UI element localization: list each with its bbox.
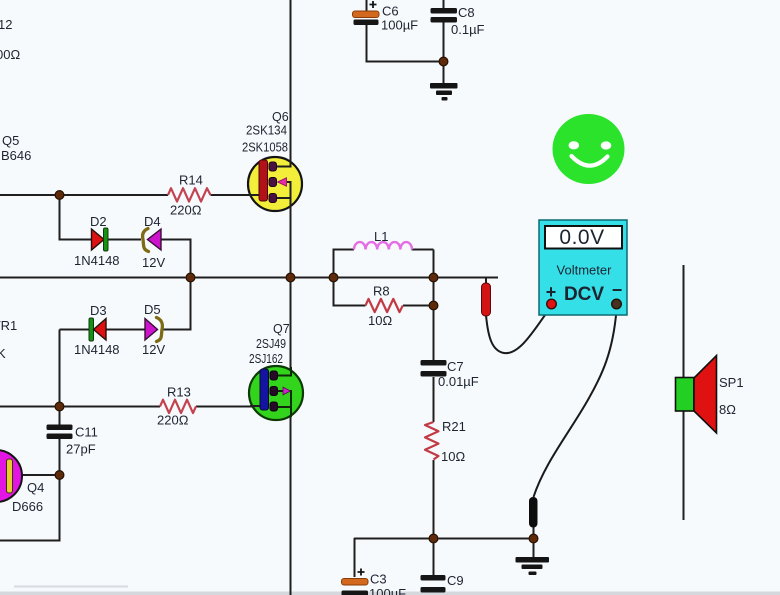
resistor R8 bbox=[366, 284, 403, 329]
svg-text:C3: C3 bbox=[370, 572, 387, 587]
wire bottom horizontal E bbox=[354, 538, 533, 540]
wire red probe stub bbox=[485, 277, 487, 284]
wire C6 bottom to C8 node bbox=[367, 25, 444, 62]
wire node B right vertical to C7 bbox=[433, 277, 435, 360]
wire Q4 collector to node bbox=[22, 474, 60, 476]
transistor Q4 bbox=[0, 450, 44, 514]
capacitor C8 bbox=[431, 5, 485, 37]
inductor L1 bbox=[354, 229, 412, 250]
svg-text:220Ω: 220Ω bbox=[157, 413, 189, 428]
svg-text:SP1: SP1 bbox=[719, 375, 744, 390]
svg-text:1N4148: 1N4148 bbox=[74, 342, 120, 357]
svg-text:10Ω: 10Ω bbox=[368, 313, 392, 328]
resistor R13 bbox=[157, 385, 196, 428]
svg-text:0.1µF: 0.1µF bbox=[451, 22, 485, 37]
svg-text:C9: C9 bbox=[447, 573, 464, 588]
svg-text:B646: B646 bbox=[1, 148, 31, 163]
svg-text:1N4148: 1N4148 bbox=[74, 253, 120, 268]
wire gate row A left bbox=[0, 194, 168, 196]
capacitor C11 bbox=[47, 425, 98, 457]
svg-text:C11: C11 bbox=[75, 425, 98, 440]
wire gate row C right to Q7 bbox=[196, 406, 262, 408]
svg-text:12V: 12V bbox=[142, 255, 165, 270]
svg-text:R14: R14 bbox=[179, 173, 203, 188]
node L1 left junction bbox=[329, 273, 338, 282]
node A junction bbox=[55, 191, 64, 200]
svg-text:2SK134: 2SK134 bbox=[246, 124, 287, 138]
svg-text:VR1: VR1 bbox=[0, 318, 17, 333]
wire black probe to ground bbox=[533, 527, 535, 557]
wire gate row C left bbox=[0, 406, 160, 408]
svg-text:100µF: 100µF bbox=[369, 586, 406, 595]
svg-text:L1: L1 bbox=[374, 229, 388, 244]
svg-text:D3: D3 bbox=[90, 303, 107, 318]
label Q5 partial bbox=[1, 133, 31, 163]
svg-text:Q6: Q6 bbox=[272, 110, 289, 124]
wire C11 bottom lead bbox=[59, 439, 61, 475]
diode D2 bbox=[74, 214, 120, 268]
wire gate row A right to Q6 bbox=[211, 194, 263, 196]
speaker SP1 bbox=[676, 356, 744, 434]
transistor Q6 bbox=[242, 110, 302, 211]
svg-text:Q7: Q7 bbox=[273, 322, 290, 336]
svg-text:12V: 12V bbox=[142, 342, 165, 357]
diode D3 bbox=[74, 303, 120, 357]
wire C9 lead bbox=[433, 538, 435, 575]
svg-text:0.01µF: 0.01µF bbox=[438, 374, 479, 389]
wire C6 top lead bbox=[366, 0, 368, 11]
svg-text:12: 12 bbox=[0, 17, 12, 32]
svg-text:D5: D5 bbox=[144, 302, 161, 317]
svg-text:10Ω: 10Ω bbox=[441, 449, 465, 464]
svg-text:Q5: Q5 bbox=[2, 133, 19, 148]
wire main horizontal B bbox=[0, 277, 498, 279]
ground top bbox=[430, 83, 458, 101]
wire speaker line bbox=[683, 265, 685, 520]
capacitor C7 bbox=[421, 359, 479, 389]
zener diode D4 bbox=[142, 214, 165, 270]
svg-text:2SJ49: 2SJ49 bbox=[256, 337, 286, 351]
wire C8 bottom to ground bbox=[443, 23, 445, 84]
wire D3 left drop bbox=[60, 330, 90, 407]
smiley status indicator bbox=[553, 114, 625, 184]
wire C8 top lead bbox=[443, 0, 445, 8]
wire C11 top lead bbox=[59, 406, 61, 425]
svg-text:100µF: 100µF bbox=[381, 18, 418, 33]
wire L1 branch bbox=[334, 250, 434, 278]
svg-text:Q4: Q4 bbox=[27, 480, 44, 495]
wire voltmeter minus to black probe bbox=[534, 310, 617, 497]
wire D3 to D5 bbox=[106, 329, 145, 331]
transistor Q7 bbox=[249, 322, 303, 420]
resistor R21 bbox=[425, 419, 466, 464]
node L1 right junction bbox=[429, 273, 438, 282]
wire C3 lead bbox=[354, 538, 356, 577]
wire R8 branch bbox=[334, 277, 434, 306]
capacitor C9 bbox=[421, 573, 464, 593]
wire main vertical drain line bbox=[290, 0, 292, 595]
svg-text:K: K bbox=[0, 346, 6, 361]
wire branch D2-D4 left drop bbox=[60, 195, 93, 240]
wire C7 to R21 bbox=[433, 377, 435, 422]
resistor R14 bbox=[168, 173, 211, 218]
svg-text:C6: C6 bbox=[382, 4, 399, 19]
svg-text:2SJ162: 2SJ162 bbox=[249, 352, 283, 366]
svg-text:R13: R13 bbox=[167, 385, 191, 400]
ground bottom bbox=[516, 557, 550, 575]
svg-text:R8: R8 bbox=[373, 284, 390, 299]
svg-text:DCV: DCV bbox=[564, 284, 604, 305]
capacitor C3 bbox=[342, 569, 407, 595]
svg-text:D4: D4 bbox=[144, 214, 161, 229]
node probe junction bbox=[529, 534, 538, 543]
svg-text:C8: C8 bbox=[458, 5, 475, 20]
node Q4 junction bbox=[55, 471, 64, 480]
svg-text:−: − bbox=[612, 280, 623, 300]
svg-text:D2: D2 bbox=[90, 214, 107, 229]
node C6-C8 junction bbox=[439, 57, 448, 66]
node gate2 junction bbox=[55, 402, 64, 411]
wire red probe to voltmeter plus bbox=[486, 308, 550, 353]
wire D4 right drop to node bbox=[161, 240, 191, 278]
red probe bbox=[482, 283, 491, 316]
svg-text:00Ω: 00Ω bbox=[0, 47, 20, 62]
node drain junction bbox=[286, 273, 295, 282]
svg-text:0.0V: 0.0V bbox=[559, 226, 604, 249]
wire D2 to D4 bbox=[108, 239, 141, 241]
wire faint bottom-left segment bbox=[14, 586, 128, 588]
node R8 right junction bbox=[429, 301, 438, 310]
node bias junction bbox=[186, 273, 195, 282]
svg-text:2SK1058: 2SK1058 bbox=[242, 141, 288, 155]
svg-text:C7: C7 bbox=[447, 359, 464, 374]
svg-text:D666: D666 bbox=[12, 499, 43, 514]
wire node down to D3-D5 row bbox=[162, 277, 191, 330]
capacitor C6 bbox=[353, 1, 419, 33]
black probe bbox=[529, 497, 538, 528]
node bottom junction bbox=[429, 534, 438, 543]
voltmeter M1 bbox=[539, 220, 627, 315]
svg-text:220Ω: 220Ω bbox=[170, 203, 202, 218]
svg-text:Voltmeter: Voltmeter bbox=[557, 263, 613, 278]
svg-text:27pF: 27pF bbox=[66, 442, 96, 457]
svg-text:R21: R21 bbox=[442, 419, 466, 434]
wire node down-left loop bbox=[0, 475, 60, 541]
zener diode D5 bbox=[142, 302, 165, 357]
svg-text:8Ω: 8Ω bbox=[719, 402, 736, 417]
wire R21 to bottom node bbox=[433, 460, 435, 538]
